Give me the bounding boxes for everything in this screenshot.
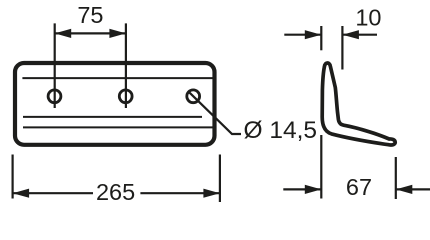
plate lower bend line 1 <box>23 116 202 118</box>
dimension tail 10 left <box>284 34 321 36</box>
arrowhead 265 right <box>203 189 220 198</box>
extension line hole 2 <box>125 23 127 108</box>
arrowhead 75 left <box>55 29 71 38</box>
svg-text:265: 265 <box>96 179 135 205</box>
dimension line 75 <box>55 32 126 34</box>
arrowhead 265 left <box>13 189 30 198</box>
extension line 10 right <box>341 26 343 70</box>
dimension tail 10 right <box>342 34 377 36</box>
profile outline (side view) <box>322 63 395 145</box>
extension line 10 left <box>320 26 322 50</box>
arrowhead 67 left <box>305 185 322 194</box>
svg-text:10: 10 <box>355 5 381 31</box>
plate outline (front view) <box>15 63 215 145</box>
hole 2 <box>119 90 132 103</box>
arrowhead 75 right <box>109 29 126 38</box>
dimension line 265 left segment <box>13 192 93 194</box>
extension line 67 left <box>320 135 322 199</box>
plate top bend line <box>22 77 213 79</box>
dimension line 265 right segment <box>140 192 220 194</box>
plate lower bend line 2 <box>23 126 213 128</box>
svg-text:75: 75 <box>77 2 103 28</box>
svg-text:Ø 14,5: Ø 14,5 <box>244 117 318 144</box>
extension line 265 left <box>12 155 14 199</box>
extension line hole 1 <box>54 23 56 108</box>
hole 1 <box>48 90 61 103</box>
arrowhead 10 left <box>305 30 322 39</box>
dimension tail 67 left <box>283 188 321 190</box>
arrowhead 10 right <box>342 30 359 39</box>
arrowhead 67 right <box>396 185 413 194</box>
extension line 265 right <box>219 155 221 203</box>
dimension tail 67 right <box>396 188 430 190</box>
hole 3 <box>187 90 200 103</box>
leader line from hole 3 <box>188 91 241 134</box>
extension line 67 right <box>395 157 397 199</box>
svg-text:67: 67 <box>346 174 372 200</box>
